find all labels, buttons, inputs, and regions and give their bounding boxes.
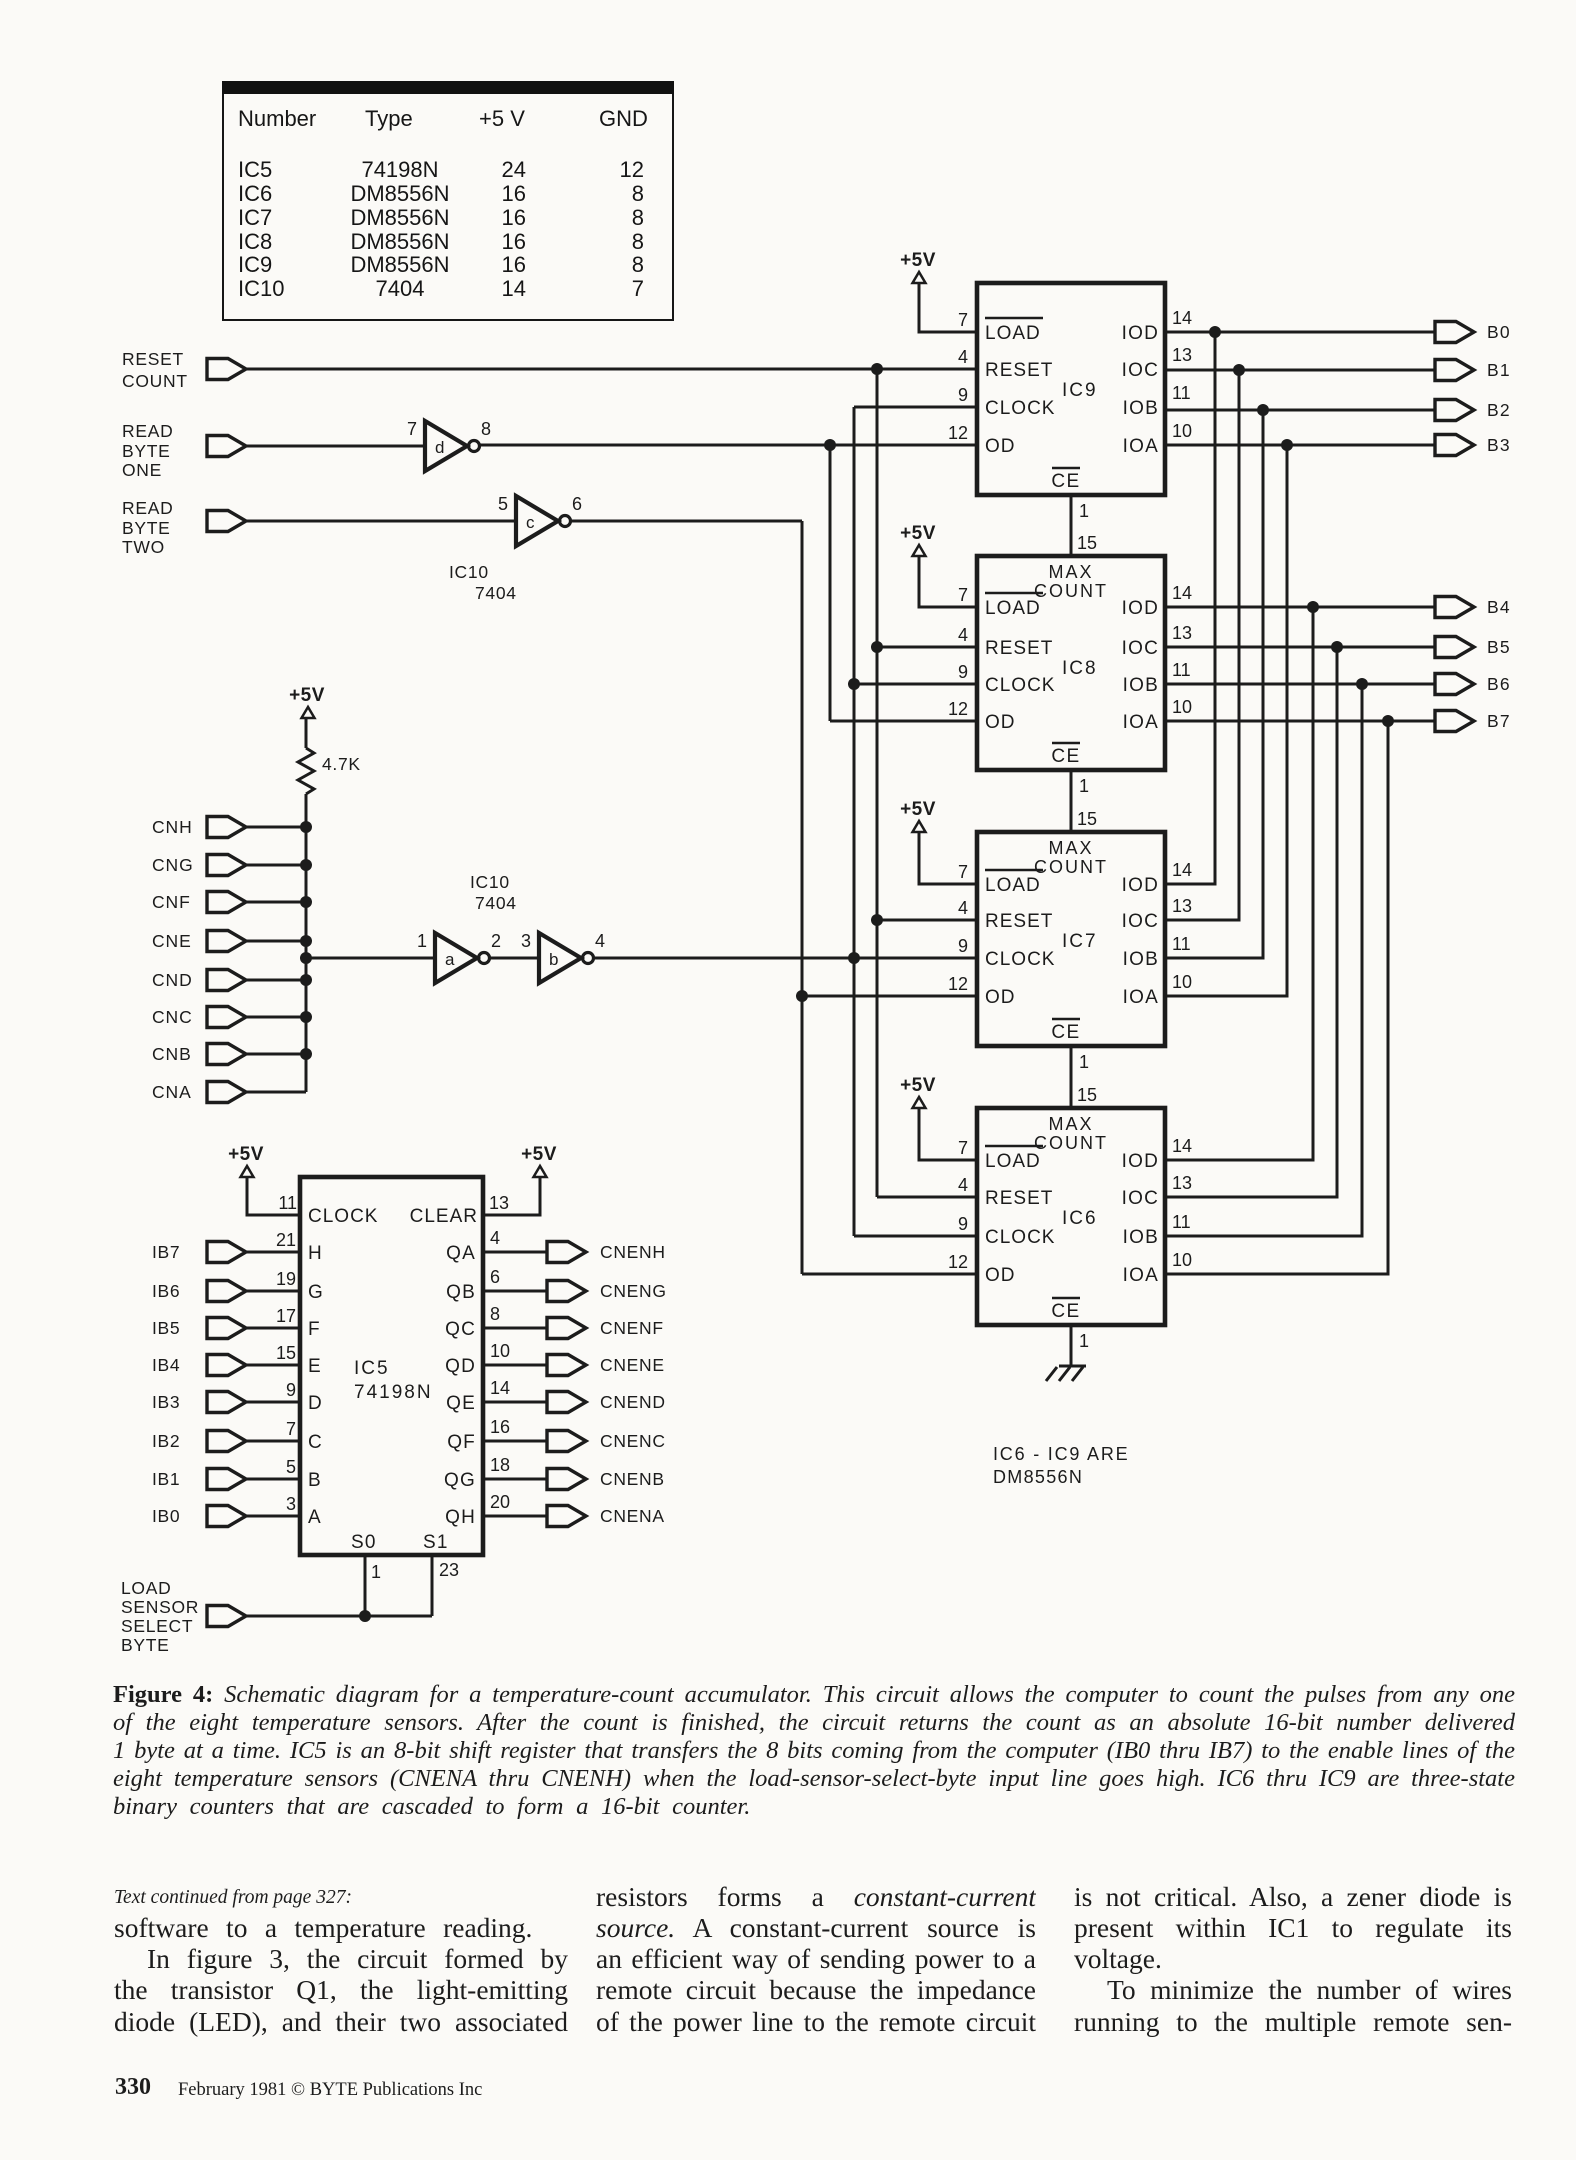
svg-text:QB: QB — [446, 1282, 476, 1303]
input CNE — [152, 931, 246, 952]
svg-text:IC6 - IC9 ARE: IC6 - IC9 ARE — [993, 1444, 1129, 1464]
wire B1 row — [1165, 369, 1435, 372]
wire reset bus to IC6 RESET — [877, 1196, 977, 1199]
wire CNF stub — [246, 901, 306, 904]
wire reset bus to IC7 RESET — [877, 919, 977, 922]
svg-text:G: G — [308, 1282, 323, 1303]
svg-text:DM8556N: DM8556N — [993, 1467, 1083, 1487]
svg-text:+5V: +5V — [900, 250, 936, 271]
svg-text:CNC: CNC — [152, 1007, 193, 1027]
svg-text:+5V: +5V — [289, 685, 325, 706]
input CNG — [152, 855, 246, 876]
junction B5 bus — [1331, 641, 1343, 653]
wire CNB stub — [246, 1053, 306, 1056]
svg-text:13: 13 — [1172, 623, 1192, 643]
svg-text:1: 1 — [417, 931, 427, 951]
svg-text:7: 7 — [958, 585, 968, 605]
svg-text:RESET: RESET — [985, 360, 1053, 381]
junction CNF node — [300, 896, 312, 908]
svg-text:7: 7 — [286, 1419, 296, 1439]
svg-text:IC10: IC10 — [449, 562, 489, 582]
svg-text:4: 4 — [490, 1228, 500, 1248]
wire READ BYTE TWO to IC10c — [246, 520, 517, 523]
wire +5V to IC5 CLEAR — [483, 1177, 540, 1215]
svg-text:CNENE: CNENE — [600, 1355, 665, 1375]
wire CNC stub — [246, 1016, 306, 1019]
junction CND node — [300, 974, 312, 986]
output B0 — [1435, 322, 1511, 343]
svg-text:12: 12 — [948, 974, 968, 994]
svg-text:d: d — [435, 438, 444, 457]
wire B3 bus vertical to IC7 — [1165, 445, 1287, 996]
svg-text:4: 4 — [958, 347, 968, 367]
svg-text:OD: OD — [985, 1265, 1016, 1286]
svg-text:12: 12 — [948, 699, 968, 719]
wire IC5 to CNENG — [483, 1290, 547, 1293]
output B1 — [1435, 360, 1511, 381]
junction CNH node — [300, 821, 312, 833]
svg-text:OD: OD — [985, 712, 1016, 733]
junction byte-one branch — [824, 439, 836, 451]
svg-text:IOB: IOB — [1123, 1227, 1159, 1248]
svg-text:14: 14 — [1172, 1136, 1192, 1156]
svg-text:7404: 7404 — [475, 583, 517, 603]
svg-text:8: 8 — [481, 419, 491, 439]
svg-text:QA: QA — [446, 1243, 476, 1264]
junction sensor net to IC10a — [300, 952, 312, 964]
svg-text:LOAD: LOAD — [985, 1151, 1041, 1172]
output CNEND — [547, 1392, 666, 1413]
wire CNH stub — [246, 826, 306, 829]
svg-text:IOA: IOA — [1123, 1265, 1159, 1286]
svg-text:COUNT: COUNT — [1034, 857, 1108, 877]
svg-text:c: c — [526, 513, 535, 532]
svg-text:CNA: CNA — [152, 1082, 192, 1102]
counter IC9 DM8556N — [948, 283, 1192, 495]
output CNENH — [547, 1242, 666, 1263]
svg-text:B5: B5 — [1487, 637, 1511, 657]
svg-text:IB2: IB2 — [152, 1431, 180, 1451]
wire LOAD SENSOR SELECT BYTE — [246, 1615, 432, 1618]
junction CNB node — [300, 1048, 312, 1060]
svg-text:2: 2 — [491, 931, 501, 951]
wire IC6 CE to ground — [1070, 1325, 1073, 1366]
wire byte-one to IC8 OD — [830, 720, 977, 723]
wire IC10a to IC10b — [490, 957, 539, 960]
svg-text:23: 23 — [439, 1560, 459, 1580]
wire IB1 to IC5 — [246, 1478, 300, 1481]
svg-text:7404: 7404 — [475, 893, 517, 913]
input READ BYTE ONE — [122, 421, 246, 480]
input IB0 — [152, 1506, 246, 1527]
svg-text:IC10: IC10 — [470, 872, 510, 892]
svg-text:LOAD: LOAD — [985, 598, 1041, 619]
wire RESET COUNT to IC9 RESET — [246, 368, 977, 371]
input READ BYTE TWO — [122, 498, 246, 557]
input IB6 — [152, 1281, 246, 1302]
wire IB2 to IC5 — [246, 1440, 300, 1443]
svg-text:CNENH: CNENH — [600, 1242, 666, 1262]
output B6 — [1435, 674, 1511, 695]
svg-text:6: 6 — [490, 1267, 500, 1287]
svg-text:SENSOR: SENSOR — [121, 1597, 199, 1617]
svg-text:CE: CE — [1051, 746, 1080, 767]
svg-text:S0: S0 — [351, 1532, 377, 1553]
svg-text:IOA: IOA — [1123, 987, 1159, 1008]
svg-text:TWO: TWO — [122, 537, 165, 557]
junction CNC node — [300, 1011, 312, 1023]
svg-text:IB3: IB3 — [152, 1392, 180, 1412]
wire +5V to IC9 LOAD — [919, 283, 977, 332]
svg-text:CE: CE — [1051, 471, 1080, 492]
svg-text:+5V: +5V — [900, 1075, 936, 1096]
svg-text:4.7K: 4.7K — [322, 754, 361, 774]
svg-text:1: 1 — [1079, 501, 1089, 521]
wire sensor net to IC10a input — [306, 957, 436, 960]
wire B4 row — [1165, 606, 1435, 609]
parts list table — [222, 81, 674, 321]
inverter U-IC10b — [539, 933, 581, 983]
svg-text:IOA: IOA — [1123, 436, 1159, 457]
svg-text:E: E — [308, 1356, 321, 1377]
junction B1 bus — [1233, 364, 1245, 376]
junction B6 bus — [1356, 678, 1368, 690]
svg-text:IB0: IB0 — [152, 1506, 180, 1526]
svg-text:10: 10 — [1172, 697, 1192, 717]
svg-text:74198N: 74198N — [354, 1382, 433, 1403]
svg-text:13: 13 — [1172, 896, 1192, 916]
svg-text:+5V: +5V — [521, 1144, 557, 1165]
svg-text:B: B — [308, 1470, 321, 1491]
input IB1 — [152, 1469, 246, 1490]
svg-text:B7: B7 — [1487, 711, 1511, 731]
output CNENA — [547, 1506, 665, 1527]
input LOAD SENSOR SELECT BYTE — [121, 1578, 246, 1655]
svg-text:IOA: IOA — [1123, 712, 1159, 733]
wire clock bus to IC7 CLOCK — [854, 957, 977, 960]
wire IB6 to IC5 — [246, 1290, 300, 1293]
wire IC5 to CNENB — [483, 1478, 547, 1481]
wire IC8 CE to IC7 pin15 — [1070, 770, 1073, 832]
wire byte-two to IC7 OD — [802, 995, 977, 998]
wire clock bus vertical — [853, 407, 856, 1236]
svg-text:3: 3 — [286, 1494, 296, 1514]
wire CNE stub — [246, 940, 306, 943]
svg-text:READ: READ — [122, 421, 173, 441]
wire B1 bus vertical to IC7 — [1165, 370, 1239, 920]
body text column 2 — [596, 1881, 1036, 1912]
body text column 1 — [114, 1887, 352, 1909]
svg-text:CNE: CNE — [152, 931, 192, 951]
wire B5 row — [1165, 646, 1435, 649]
svg-text:20: 20 — [490, 1492, 510, 1512]
svg-text:11: 11 — [1172, 383, 1191, 403]
svg-text:8: 8 — [490, 1304, 500, 1324]
wire B0 bus vertical to IC7 — [1165, 332, 1215, 884]
svg-text:21: 21 — [276, 1230, 296, 1250]
wire IC9 CE to IC8 pin15 — [1070, 495, 1073, 556]
junction B0 bus — [1209, 326, 1221, 338]
output B7 — [1435, 711, 1511, 732]
svg-text:11: 11 — [278, 1193, 297, 1213]
svg-text:B0: B0 — [1487, 322, 1511, 342]
wire READ BYTE ONE to IC10d — [246, 445, 426, 448]
wire IB5 to IC5 — [246, 1327, 300, 1330]
wire CNG stub — [246, 864, 306, 867]
wire B6 row — [1165, 683, 1435, 686]
svg-text:IOD: IOD — [1122, 875, 1159, 896]
svg-text:9: 9 — [958, 662, 968, 682]
output CNENG — [547, 1281, 667, 1302]
input RESET COUNT — [122, 349, 246, 391]
svg-text:B3: B3 — [1487, 435, 1511, 455]
wire clock bus to IC6 CLOCK — [854, 1235, 977, 1238]
svg-text:IOC: IOC — [1122, 360, 1159, 381]
svg-text:S1: S1 — [423, 1532, 449, 1553]
svg-text:4: 4 — [958, 898, 968, 918]
output CNENE — [547, 1355, 665, 1376]
svg-text:14: 14 — [1172, 860, 1192, 880]
svg-text:IOD: IOD — [1122, 323, 1159, 344]
svg-text:10: 10 — [1172, 972, 1192, 992]
wire +5V to IC5 CLOCK — [247, 1177, 300, 1215]
svg-text:IB4: IB4 — [152, 1355, 180, 1375]
svg-text:IOC: IOC — [1122, 911, 1159, 932]
input CNF — [152, 892, 246, 913]
wire IC5 to CNEND — [483, 1401, 547, 1404]
svg-text:B1: B1 — [1487, 360, 1511, 380]
input IB3 — [152, 1392, 246, 1413]
wire IB0 to IC5 — [246, 1515, 300, 1518]
output B4 — [1435, 597, 1511, 618]
svg-text:RESET: RESET — [985, 1188, 1053, 1209]
wire B4 bus vertical to IC6 — [1165, 607, 1313, 1160]
input CNA — [152, 1082, 246, 1103]
wire IC5 S1 down — [431, 1555, 434, 1616]
svg-text:18: 18 — [490, 1455, 510, 1475]
svg-text:CLOCK: CLOCK — [985, 675, 1055, 696]
input CNC — [152, 1007, 246, 1028]
svg-text:LOAD: LOAD — [121, 1578, 171, 1598]
svg-text:CNG: CNG — [152, 855, 194, 875]
junction S0 node — [359, 1610, 371, 1622]
svg-text:15: 15 — [1077, 533, 1097, 553]
wire CNA stub — [246, 1091, 306, 1094]
wire CND stub — [246, 979, 306, 982]
junction clock bus IC7 — [848, 952, 860, 964]
input CND — [152, 970, 246, 991]
svg-text:4: 4 — [958, 1175, 968, 1195]
svg-text:B4: B4 — [1487, 597, 1511, 617]
svg-text:IC5: IC5 — [354, 1358, 390, 1379]
wire B2 bus vertical to IC7 — [1165, 410, 1263, 958]
inverter U-IC10c — [516, 496, 558, 546]
wire clock bus to IC8 CLOCK — [854, 683, 977, 686]
svg-text:IOB: IOB — [1123, 949, 1159, 970]
svg-text:IOB: IOB — [1123, 398, 1159, 419]
wire IC5 to CNENE — [483, 1364, 547, 1367]
svg-text:11: 11 — [1172, 934, 1191, 954]
svg-text:7: 7 — [958, 1138, 968, 1158]
svg-text:CLEAR: CLEAR — [410, 1206, 478, 1227]
input CNB — [152, 1044, 246, 1065]
body text column 3 — [1074, 1881, 1512, 1912]
wire IC5 S0 down — [364, 1555, 367, 1616]
svg-text:QD: QD — [445, 1356, 476, 1377]
svg-text:CNEND: CNEND — [600, 1392, 666, 1412]
svg-text:RESET: RESET — [122, 349, 184, 369]
output CNENF — [547, 1318, 664, 1339]
resistor 4.7K — [298, 748, 314, 794]
svg-text:5: 5 — [498, 494, 508, 514]
svg-text:RESET: RESET — [985, 911, 1053, 932]
output B5 — [1435, 637, 1511, 658]
svg-text:CLOCK: CLOCK — [985, 1227, 1055, 1248]
svg-text:OD: OD — [985, 436, 1016, 457]
svg-text:RESET: RESET — [985, 638, 1053, 659]
svg-text:1: 1 — [371, 1562, 381, 1582]
svg-text:IOC: IOC — [1122, 1188, 1159, 1209]
wire IC5 to CNENF — [483, 1327, 547, 1330]
wire IC5 to CNENA — [483, 1515, 547, 1518]
svg-text:CNENC: CNENC — [600, 1431, 666, 1451]
svg-text:IB7: IB7 — [152, 1242, 180, 1262]
svg-text:SELECT: SELECT — [121, 1616, 193, 1636]
svg-text:IC6: IC6 — [1062, 1208, 1098, 1229]
svg-text:11: 11 — [1172, 1212, 1191, 1232]
output B2 — [1435, 400, 1511, 421]
output B3 — [1435, 435, 1511, 456]
wire IB3 to IC5 — [246, 1401, 300, 1404]
svg-text:CNENF: CNENF — [600, 1318, 664, 1338]
svg-text:B2: B2 — [1487, 400, 1511, 420]
svg-text:12: 12 — [948, 1252, 968, 1272]
svg-text:15: 15 — [1077, 1085, 1097, 1105]
svg-text:IOC: IOC — [1122, 638, 1159, 659]
svg-text:D: D — [308, 1393, 322, 1414]
svg-text:CE: CE — [1051, 1301, 1080, 1322]
svg-text:+5V: +5V — [228, 1144, 264, 1165]
svg-text:LOAD: LOAD — [985, 875, 1041, 896]
svg-text:9: 9 — [286, 1380, 296, 1400]
svg-text:COUNT: COUNT — [122, 371, 188, 391]
svg-text:A: A — [308, 1507, 321, 1528]
svg-text:MAX: MAX — [1048, 562, 1093, 582]
svg-text:+5V: +5V — [900, 523, 936, 544]
wire IC10c output (byte-two net) — [571, 520, 802, 523]
svg-text:4: 4 — [595, 931, 605, 951]
svg-text:15: 15 — [1077, 809, 1097, 829]
svg-text:QG: QG — [444, 1470, 476, 1491]
svg-text:MAX: MAX — [1048, 1114, 1093, 1134]
wire clock bus to IC9 CLOCK — [854, 406, 977, 409]
svg-text:13: 13 — [489, 1193, 509, 1213]
wire B6 bus vertical to IC6 — [1165, 684, 1362, 1236]
wire byte-one branch vertical — [829, 445, 832, 721]
svg-text:CLOCK: CLOCK — [985, 398, 1055, 419]
svg-text:QE: QE — [446, 1393, 476, 1414]
svg-text:10: 10 — [1172, 1250, 1192, 1270]
svg-text:17: 17 — [276, 1306, 296, 1326]
svg-text:+5V: +5V — [900, 799, 936, 820]
wire B7 row — [1165, 720, 1435, 723]
wire IB4 to IC5 — [246, 1364, 300, 1367]
svg-text:QF: QF — [447, 1432, 476, 1453]
junction byte-two to IC7 OD — [796, 990, 808, 1002]
junction B4 bus — [1307, 601, 1319, 613]
wire IC5 to CNENH — [483, 1251, 547, 1254]
svg-text:CLOCK: CLOCK — [985, 949, 1055, 970]
svg-text:CNH: CNH — [152, 817, 193, 837]
wire IC5 to CNENC — [483, 1440, 547, 1443]
svg-text:7: 7 — [407, 419, 417, 439]
svg-text:IC9: IC9 — [1062, 380, 1098, 401]
output CNENB — [547, 1469, 665, 1490]
svg-text:BYTE: BYTE — [121, 1635, 170, 1655]
page footer — [115, 2074, 151, 2101]
svg-text:BYTE: BYTE — [122, 441, 171, 461]
svg-text:1: 1 — [1079, 1052, 1089, 1072]
shift register IC5 74198N — [276, 1177, 510, 1555]
svg-text:4: 4 — [958, 625, 968, 645]
svg-text:7: 7 — [958, 310, 968, 330]
svg-text:IOB: IOB — [1123, 675, 1159, 696]
inverter U-IC10a — [435, 933, 477, 983]
svg-text:7: 7 — [958, 862, 968, 882]
svg-text:BYTE: BYTE — [122, 518, 171, 538]
svg-text:IB6: IB6 — [152, 1281, 180, 1301]
svg-text:READ: READ — [122, 498, 173, 518]
ground — [1046, 1366, 1086, 1381]
svg-text:CND: CND — [152, 970, 193, 990]
svg-text:IOD: IOD — [1122, 598, 1159, 619]
svg-text:12: 12 — [948, 423, 968, 443]
svg-text:6: 6 — [572, 494, 582, 514]
svg-text:CNENB: CNENB — [600, 1469, 665, 1489]
svg-text:1: 1 — [1079, 1331, 1089, 1351]
svg-text:ONE: ONE — [122, 460, 162, 480]
wire reset bus vertical — [876, 369, 879, 1197]
junction CNG node — [300, 859, 312, 871]
svg-text:10: 10 — [1172, 421, 1192, 441]
svg-text:13: 13 — [1172, 1173, 1192, 1193]
wire IC10d output to IC9 OD — [480, 444, 977, 447]
wire byte-two to IC6 OD — [802, 1273, 977, 1276]
svg-text:F: F — [308, 1319, 320, 1340]
junction B3 bus — [1281, 439, 1293, 451]
input IB4 — [152, 1355, 246, 1376]
svg-text:H: H — [308, 1243, 322, 1264]
wire IC7 CE to IC6 pin15 — [1070, 1046, 1073, 1108]
svg-text:14: 14 — [1172, 583, 1192, 603]
svg-text:14: 14 — [490, 1378, 510, 1398]
svg-text:9: 9 — [958, 936, 968, 956]
junction B7 bus — [1382, 715, 1394, 727]
input CNH — [152, 817, 246, 838]
junction B2 bus — [1257, 404, 1269, 416]
input IB2 — [152, 1431, 246, 1452]
svg-text:3: 3 — [521, 931, 531, 951]
svg-text:5: 5 — [286, 1457, 296, 1477]
svg-text:CNENG: CNENG — [600, 1281, 667, 1301]
wire resistor to CNA (common sensor net) — [305, 794, 308, 1092]
svg-text:14: 14 — [1172, 308, 1192, 328]
svg-text:C: C — [308, 1432, 322, 1453]
svg-text:15: 15 — [276, 1343, 296, 1363]
svg-text:IB1: IB1 — [152, 1469, 180, 1489]
svg-text:IC8: IC8 — [1062, 658, 1098, 679]
svg-text:10: 10 — [490, 1341, 510, 1361]
